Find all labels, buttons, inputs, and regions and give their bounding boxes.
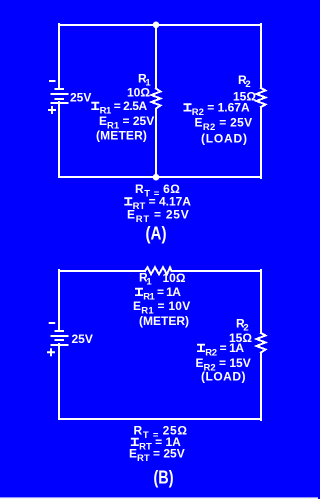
svg-text:(A): (A) — [146, 224, 167, 244]
wire: circuit A bottom — [59, 176, 261, 178]
value label: I_RT = 1A (circuit B totals) — [131, 438, 139, 446]
value label: I_R1 = 2.5A (circuit A) — [91, 102, 99, 110]
value label: I_R1 = 1A (circuit B) — [135, 288, 143, 296]
resistor R2 (circuit B, 15 ohm) — [257, 333, 266, 353]
svg-text:10Ω: 10Ω — [127, 86, 150, 100]
value label: I_RT = 4.17A (circuit A totals) — [124, 197, 132, 205]
svg-text:25V: 25V — [72, 332, 93, 346]
battery BT1 minus sign — [49, 80, 56, 82]
node: junction dot bottom of R1 branch (circuit A) — [153, 174, 160, 181]
node: junction dot top of R1 branch (circuit A) — [153, 22, 160, 29]
svg-text:(LOAD): (LOAD) — [201, 132, 248, 146]
resistor R1 (circuit A, 10 ohm) — [152, 89, 161, 113]
wire: circuit B bottom — [59, 418, 261, 420]
resistor R2 (circuit A, 15 ohm) — [257, 88, 266, 107]
battery BT1 plus sign — [48, 106, 56, 114]
wire: circuit B top right — [172, 270, 262, 272]
svg-text:(METER): (METER) — [96, 129, 147, 143]
svg-text:(LOAD): (LOAD) — [201, 370, 246, 384]
wire: circuit A top — [59, 24, 261, 26]
wire: circuit B right lower (from R2) — [260, 353, 262, 421]
svg-text:25V: 25V — [70, 91, 91, 105]
value label: I_R2 = 1A (circuit B) — [197, 344, 205, 352]
wire: circuit B left lower (battery positive lead) — [58, 344, 60, 419]
wire: circuit B right upper (to R2) — [260, 270, 262, 333]
svg-text:(METER): (METER) — [139, 314, 189, 328]
wire: circuit A left lower (battery positive lead) — [58, 102, 60, 177]
wire: circuit A middle branch lower (from R1) — [155, 112, 157, 177]
value label: I_R2 = 1.67A (circuit A) — [184, 103, 192, 111]
battery BT2 plus sign — [47, 348, 55, 356]
wire: circuit A left upper (battery negative lead) — [58, 24, 60, 89]
wire: circuit A right upper (to R2) — [260, 24, 262, 88]
battery BT1 (circuit A, 25V) plates — [55, 88, 65, 90]
svg-text:(B): (B) — [154, 468, 174, 488]
bottom edge white strip — [0, 497, 318, 499]
wire: circuit A right lower (from R2) — [260, 107, 262, 178]
wire: circuit B top left — [59, 270, 145, 272]
battery BT2 (circuit B, 25V) plates — [55, 330, 65, 332]
battery BT2 minus sign — [49, 322, 56, 324]
wire: circuit B left upper (battery negative lead) — [58, 270, 60, 330]
wire: circuit A middle branch upper (to R1) — [155, 24, 157, 89]
resistor R1 (circuit B, 10 ohm, horizontal) — [145, 267, 172, 274]
svg-text:10Ω: 10Ω — [163, 271, 186, 285]
